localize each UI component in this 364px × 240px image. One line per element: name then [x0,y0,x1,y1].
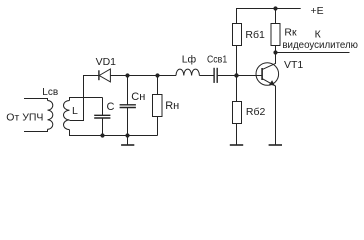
node dot: Сн bottom [125,133,129,137]
transistor VT1 circle [256,63,279,86]
inductor Lсв (primary coupling coil) [48,101,53,130]
svg-text:Lсв: Lсв [42,87,58,98]
ground (emitter) [269,144,282,146]
node dot: C bottom [100,133,104,137]
resistor Rк [271,24,280,46]
ground (Rб2) [230,144,243,146]
svg-text:Lф: Lф [182,53,197,65]
wire output to video amplifier [276,52,350,54]
ground (tank bottom) [127,136,129,145]
resistor Rб1 [233,24,242,46]
capacitor C branch top lead [102,98,104,116]
svg-text:От УПЧ: От УПЧ [6,112,43,124]
node dot: +E rail [273,6,277,10]
wire Lф to Cсв1 [199,75,213,77]
capacitor C bottom lead [102,118,104,135]
svg-text:Rк: Rк [284,27,297,39]
transistor VT1 collector [262,53,275,70]
resistor Rн [153,95,163,117]
wire bias divider riser top [236,46,238,76]
svg-text:VD1: VD1 [96,56,117,68]
wire bias divider riser bottom [236,76,238,102]
svg-text:Rб1: Rб1 [245,29,265,41]
node dot: base/divider [234,73,238,77]
wire Rк bottom to collector node [275,46,277,53]
inductor Lф (filter choke) [176,69,199,75]
inductor L (tank secondary winding) [63,101,69,130]
transistor VT1 emitter [262,79,275,145]
wire input bottom (От УПЧ lower lead) [24,129,48,131]
svg-text:Rб2: Rб2 [246,106,266,118]
resistor Rб2 [233,102,242,124]
diode VD1 cathode bar [98,70,100,80]
capacitor Cсв1 plates [213,68,215,83]
wire L bottom to bottom rail [70,130,158,136]
svg-text:Cсв1: Cсв1 [207,53,227,65]
svg-text:+Е: +Е [311,5,324,17]
resistor Rн leads [157,76,159,95]
wire Rк top lead [275,9,277,24]
diode VD1 triangle [99,69,110,82]
capacitor Сн top lead [127,76,129,105]
transistor VT1 emitter arrow [269,80,275,85]
svg-text:L: L [72,105,78,117]
node dot: Rн top [155,73,159,77]
svg-text:Rн: Rн [165,100,179,112]
node dot: collector node [273,50,277,54]
svg-text:C: C [107,101,115,113]
wire Rб1 to +E rail [237,9,301,24]
wire L top to C top (tank top link) [70,98,103,101]
svg-text:видеоусилителю: видеоусилителю [282,39,358,51]
wire Cсв1 to base [218,75,262,77]
capacitor C plates [94,114,110,116]
wire coil tap to diode riser [70,76,99,121]
svg-text:VT1: VT1 [284,59,303,71]
capacitor Сн bottom lead [127,108,129,136]
wire diode to Lф [110,75,176,77]
transistor VT1 base bar [261,68,263,80]
node dot: Сн top [125,73,129,77]
capacitor Сн plates [120,104,136,106]
svg-text:Сн: Сн [131,91,145,103]
wire input top (От УПЧ upper lead) [24,99,48,101]
wire Rб2 to ground [236,124,238,145]
